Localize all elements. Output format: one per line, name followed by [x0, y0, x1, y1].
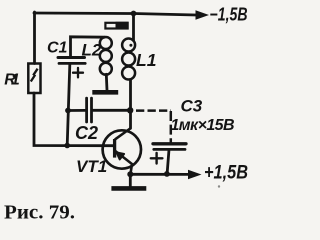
- node collector / C2 / C3 branch: [127, 107, 133, 113]
- capacitor C2: [87, 98, 92, 122]
- inductor L2: [100, 37, 112, 75]
- svg-text:VT1: VT1: [76, 157, 107, 176]
- wire main vertical top (rail to L1): [132, 14, 135, 41]
- emitter arrow (PNP): [116, 152, 124, 159]
- node top rail / L1: [131, 11, 137, 17]
- supply arrow +1,5V: [188, 170, 202, 180]
- node left vertical / bottom rail: [64, 143, 70, 149]
- wire top rail: [34, 13, 196, 15]
- svg-text:С3: С3: [181, 97, 203, 116]
- wire left frame bottom + bottom rail to base: [34, 93, 113, 146]
- node C3 / emitter rail: [164, 171, 170, 177]
- chassis ground under L2: [92, 90, 118, 95]
- paper background: [0, 0, 250, 226]
- wire L1 bottom to collector bend: [129, 80, 132, 129]
- svg-text:Рис. 79.: Рис. 79.: [4, 202, 75, 224]
- svg-text:С2: С2: [75, 123, 98, 143]
- inductor L1: [122, 39, 135, 80]
- ferrite core symbol: [105, 22, 128, 30]
- wire left frame top: [33, 12, 36, 64]
- paper speck: [218, 185, 220, 187]
- wire emitter ground stub: [129, 174, 132, 186]
- dashed link to C3: [136, 111, 171, 143]
- wire C2 left: [68, 109, 85, 112]
- node emitter / rail: [127, 171, 133, 177]
- resistor R1: [28, 64, 40, 94]
- capacitor C3: [151, 144, 186, 164]
- transistor VT1: [103, 128, 141, 174]
- svg-text:R1: R1: [4, 72, 20, 89]
- svg-text:+1,5В: +1,5В: [204, 163, 248, 184]
- wire C2 right: [93, 109, 131, 112]
- svg-text:С1: С1: [47, 40, 68, 57]
- node C2 / left vertical: [65, 108, 71, 114]
- wire emitter rail: [130, 173, 188, 176]
- chassis ground at emitter: [111, 186, 146, 191]
- svg-text:L1: L1: [136, 50, 156, 70]
- wire C1 top stub and top wire to L2: [71, 37, 105, 58]
- wire C3 bottom stub: [167, 151, 169, 174]
- svg-text:1мк×15В: 1мк×15В: [171, 117, 235, 134]
- svg-text:−1,5В: −1,5В: [210, 5, 248, 25]
- L1 winding curl dot: [129, 44, 132, 47]
- wire L2 bottom stub: [105, 74, 108, 90]
- capacitor C1: [58, 58, 85, 78]
- svg-text:L2: L2: [82, 41, 102, 60]
- wire left vertical (C1 bottom to bottom rail): [67, 65, 70, 146]
- supply arrow -1,5V: [196, 10, 210, 19]
